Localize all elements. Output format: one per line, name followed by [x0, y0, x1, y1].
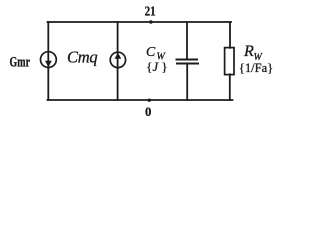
wire capacitor branch lower	[186, 64, 188, 100]
wire bottom rail node 0	[48, 99, 233, 101]
svg-text:C: C	[146, 44, 156, 59]
svg-text:0: 0	[145, 105, 151, 119]
node dot 0	[148, 99, 151, 102]
capacitor CW top plate	[176, 59, 199, 61]
resistor RW box	[225, 48, 234, 75]
svg-text:R: R	[243, 43, 254, 60]
node dot 21	[149, 20, 152, 23]
svg-text:}: }	[162, 60, 168, 74]
wire branch Cmq	[117, 22, 119, 100]
svg-text:Cmq: Cmq	[67, 47, 97, 66]
wire top rail node 21	[48, 21, 232, 23]
current source Gmr	[41, 52, 57, 68]
svg-text:Gmr: Gmr	[10, 54, 31, 70]
svg-text:{1/Fa}: {1/Fa}	[239, 61, 273, 75]
current source Cmq	[110, 52, 125, 67]
svg-text:{: {	[146, 60, 152, 74]
capacitor CW bottom plate	[176, 63, 199, 65]
wire left branch through Gmr	[47, 22, 49, 100]
svg-text:21: 21	[145, 3, 156, 18]
arrow of Gmr (down)	[45, 61, 52, 67]
arrow of Cmq (up)	[115, 53, 122, 59]
wire resistor branch lower	[229, 74, 231, 100]
wire capacitor branch upper	[186, 22, 188, 59]
wire resistor branch upper	[229, 22, 231, 48]
